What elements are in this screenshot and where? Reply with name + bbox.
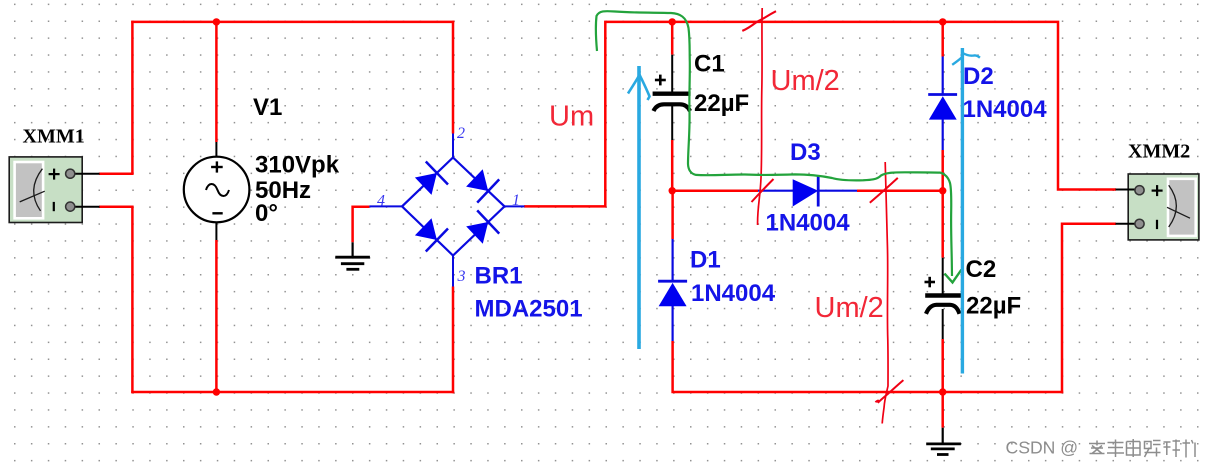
hand hatch lower top [870,178,898,203]
svg-text:C1: C1 [694,51,725,78]
diode D3 [758,176,857,207]
diode bottom-right [466,222,488,244]
diamond [402,158,505,256]
source V1 [184,142,250,240]
svg-text:4: 4 [377,193,385,210]
svg-text:2: 2 [457,125,465,142]
svg-text:BR1: BR1 [475,263,523,290]
svg-text:0°: 0° [255,200,278,227]
wire D2 branch red lower [941,150,944,192]
diode top-right [466,169,488,191]
wire XMM1 minus stub red [99,206,134,209]
ground 1 [335,242,370,269]
capacitor C2 [925,258,964,339]
hand line lower vertical [882,162,888,424]
svg-text:Um: Um [549,101,594,133]
multimeter XMM1 [9,157,99,223]
wire top right horizontal and right vertical [942,22,1116,190]
junction dot middle right [939,187,946,194]
svg-text:CSDN @: CSDN @ [1006,438,1079,458]
wire top middle horizontal [671,21,944,24]
hand hatch upper bottom [752,179,774,202]
junction dot D2 top [939,18,946,25]
wire XMM1 plus stub red [99,173,134,176]
wire left vertical lower [131,207,134,393]
junction dot C1 top [669,18,676,25]
svg-text:C2: C2 [966,256,997,283]
cyan arrow right [952,48,980,374]
wire C2 branch red lower [941,339,944,392]
hand hatch lower bottom [875,380,903,403]
watermark CSDN [1006,438,1196,458]
svg-text:1: 1 [512,192,520,209]
multimeter XMM2 [1116,174,1199,240]
diode D1 [658,239,687,341]
pin 4 stub [369,205,403,207]
pin 2 stub [452,134,454,160]
wire bottom-left horizontal [131,391,454,394]
pin 3 stub [452,255,454,287]
junction dot V1 bottom [213,388,220,395]
wire bridge pin4 to ground [353,207,370,243]
wire bottom-right horizontal [673,391,1064,394]
wire left vertical upper [131,21,134,174]
diode bottom-left [415,218,437,240]
svg-text:MDA2501: MDA2501 [475,296,583,323]
green freehand highlight path [596,11,952,276]
svg-text:XMM2: XMM2 [1128,140,1190,162]
svg-text:310Vpk: 310Vpk [255,152,340,179]
svg-text:Um/2: Um/2 [771,65,840,97]
green arrowhead [945,270,962,283]
wire ground2 red stub [941,392,944,428]
hand line upper vertical [758,8,763,225]
svg-text:D1: D1 [690,246,721,273]
svg-text:D2: D2 [963,63,994,90]
svg-text:1N4004: 1N4004 [766,210,851,237]
svg-text:Um/2: Um/2 [815,292,884,324]
wire V1 top red [215,21,218,142]
svg-text:22µF: 22µF [966,293,1021,320]
junction dot ground2 [939,388,946,395]
wire C2 branch red upper [941,190,944,258]
wire V1 bottom red [215,240,218,393]
svg-text:D3: D3 [790,139,821,166]
hand hatch upper top [742,11,776,31]
svg-text:1N4004: 1N4004 [963,96,1048,123]
wire C1 branch red upper [671,22,674,55]
junction dot V1 top [213,18,220,25]
svg-text:1N4004: 1N4004 [691,280,776,307]
wire bridge pin3 vertical red [452,287,455,394]
diode top-left [415,173,437,195]
svg-text:XMM1: XMM1 [23,125,85,147]
bridge rectifier BR1 [369,134,524,287]
wire D1 branch red lower [671,341,674,393]
diode D2 [928,57,957,151]
cyan arrow left [628,66,650,349]
wire bridge pin1 red to Um riser [524,22,673,207]
wire middle horizontal red left part [671,189,758,192]
wire top-left horizontal [131,21,454,24]
wire XMM2 minus return [1062,224,1116,393]
svg-text:V1: V1 [253,94,282,121]
wire D1 branch red upper [671,190,674,240]
wire middle horizontal red right part [857,189,944,192]
wire C1 branch red lower [671,140,674,192]
capacitor C1 [653,55,691,140]
svg-text:3: 3 [457,268,466,285]
ground 2 [926,428,961,455]
svg-text:22µF: 22µF [694,90,749,117]
wire bridge pin2 vertical red [452,21,455,134]
pin 1 stub [505,205,525,207]
wire D2 branch red upper [941,22,944,57]
junction dot middle left [669,187,676,194]
